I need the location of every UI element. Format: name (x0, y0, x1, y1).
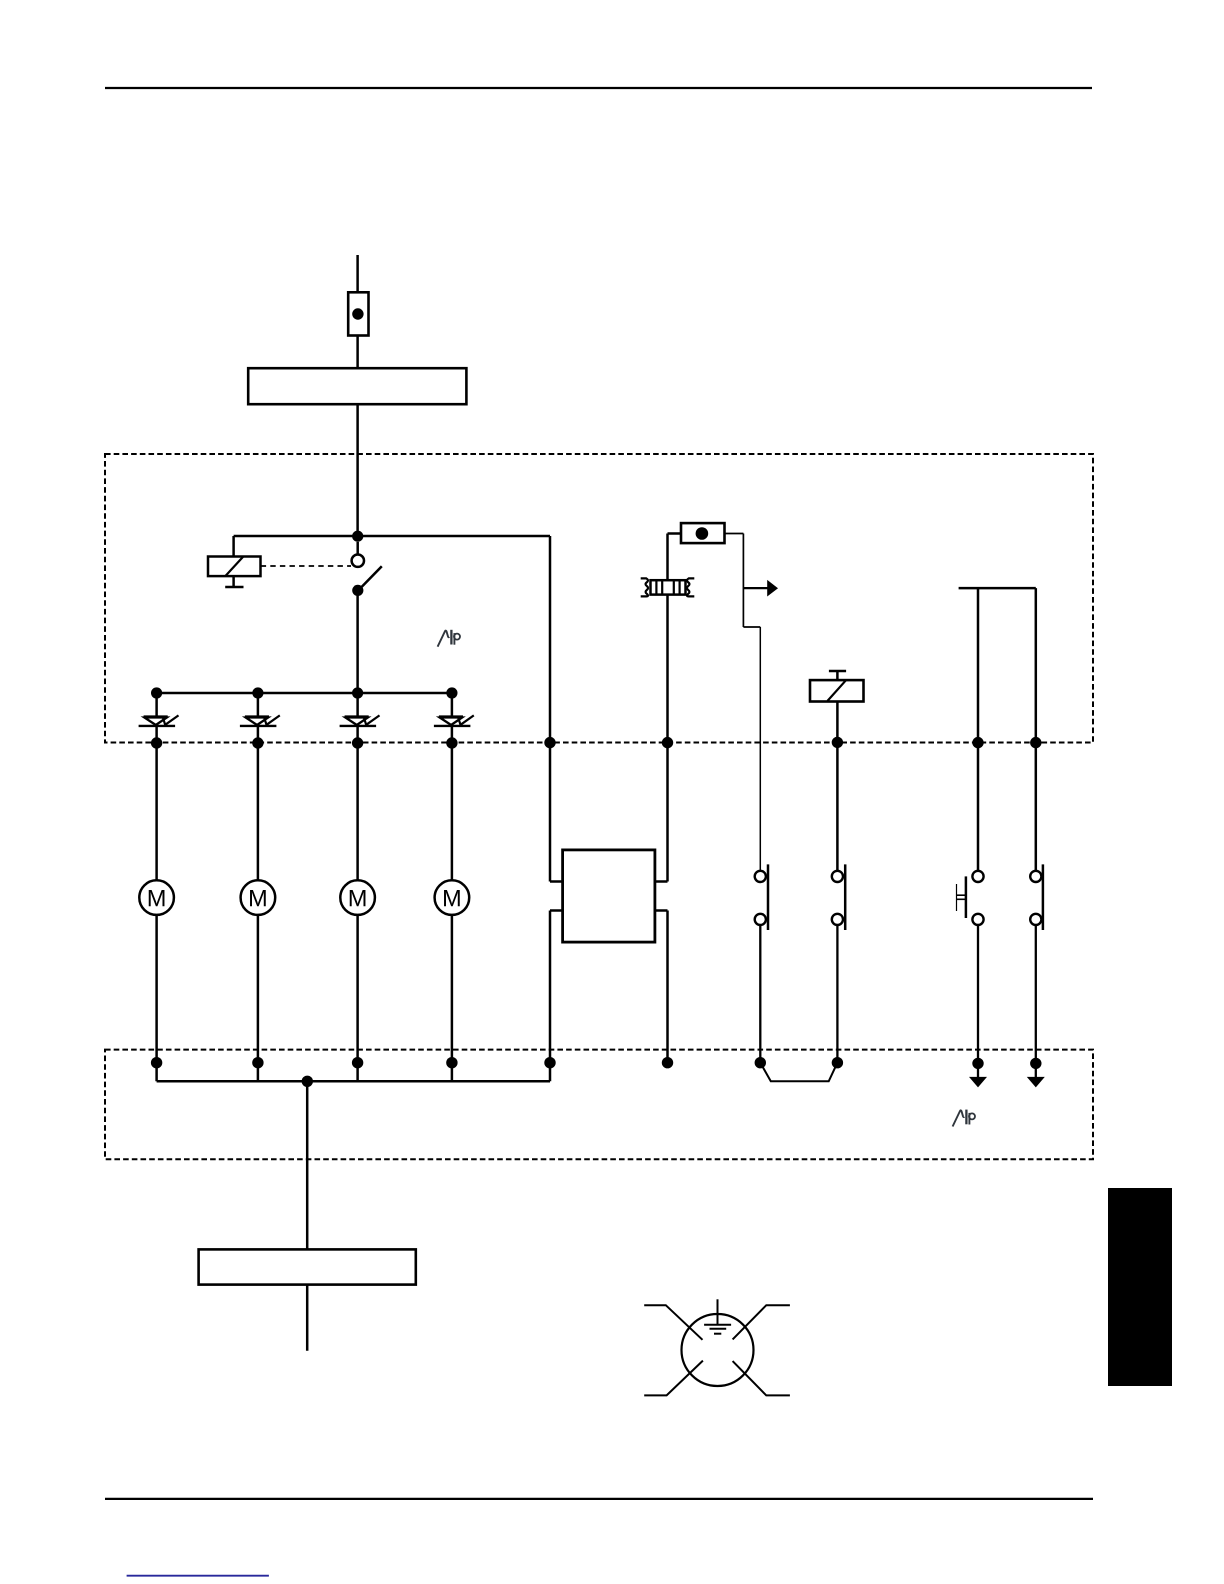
pushbutton SW1 (NO contacts) (755, 864, 768, 1062)
motor M2 (241, 880, 276, 1081)
relay coil K2 with tail (829, 670, 846, 673)
relay contact blade (360, 566, 382, 589)
key switch SW3 (contacts with interlock mark) (957, 871, 984, 1064)
terminal dot node C4 (446, 737, 457, 748)
Np pulse mark (lower enclosure) (953, 1110, 975, 1127)
right pair top connector (959, 587, 1036, 590)
control board dashed enclosure (upper) (105, 454, 1093, 743)
triac Q3 (340, 693, 380, 880)
triac Q2 (240, 693, 280, 880)
black sidebar tab (1108, 1188, 1172, 1386)
terminal dot node C8 (972, 737, 983, 748)
junction dot node B3 (352, 687, 363, 698)
wire: right feed column x=667.5 (666, 534, 669, 882)
footer rule (105, 1498, 1093, 1500)
lower dashed enclosure (105, 1050, 1093, 1160)
terminal dot node C9 (1030, 737, 1041, 748)
terminal dot node C3 (352, 737, 363, 748)
pushbutton SW4 (NO contacts) (1030, 864, 1043, 1063)
terminal dot node D8 (832, 1057, 843, 1068)
footer link underline (blue) (127, 1575, 269, 1577)
signal arrow head (767, 580, 778, 597)
return bus junction dot (302, 1076, 313, 1087)
wire: node A horizontal feed (234, 535, 550, 538)
U link between SW1 and SW2 returns (760, 1063, 837, 1082)
Np pulse mark (upper, inside control board) (438, 630, 460, 647)
ground arrow under SW3 (977, 1063, 979, 1078)
wire: coil K2 down to pushbutton SW2 (836, 702, 839, 871)
node A junction dot (352, 531, 363, 542)
neutral return bus (157, 1080, 550, 1083)
PCB stub bottom-left (550, 909, 563, 912)
motor M3 (340, 880, 375, 1081)
wire: terminal block tail (306, 1285, 309, 1351)
terminal dot node C7 (832, 737, 843, 748)
terminal dot node C6 (662, 737, 673, 748)
terminal dot node D9 (972, 1058, 983, 1069)
terminal dot node D5 (544, 1057, 555, 1068)
terminal dot node D10 (1030, 1058, 1041, 1069)
terminal dot node D6 (662, 1057, 673, 1068)
relay K1 actuator tail (232, 576, 235, 587)
dashed mechanical link K1 to contact (261, 565, 351, 567)
terminal dot node D1 (151, 1057, 162, 1068)
header rule (105, 87, 1092, 89)
motor M4 (435, 880, 470, 1081)
right winding curl (687, 578, 694, 596)
terminal dot node D2 (252, 1057, 263, 1068)
fuse F1 (vertical cartridge with dot) (348, 292, 368, 335)
pushbutton SW2 (NO contacts) (832, 864, 845, 1062)
PCB stub bottom-right (655, 909, 668, 912)
junction dot node B1 (151, 687, 162, 698)
triac Q1 (139, 693, 179, 880)
mains filter box (248, 368, 466, 404)
terminal dot node D3 (352, 1057, 363, 1068)
wire: return bus down to terminal block (306, 1081, 309, 1249)
terminal block box (199, 1249, 416, 1284)
terminal dot node D7 (755, 1057, 766, 1068)
wire: fuse F1 to filter box (356, 336, 359, 369)
compressor symbol: circle with earth and cross arms (644, 1299, 790, 1395)
relay contact S1: upper terminal (open circle) (356, 542, 359, 555)
wire: drop to relay coil K1 (232, 536, 235, 557)
left winding curl (641, 578, 648, 596)
main PCB box (563, 850, 655, 942)
PCB stub top-left (550, 880, 563, 883)
junction dot node B2 (252, 687, 263, 698)
wire: down to switch SW4 (1035, 588, 1038, 871)
triac feed bus (157, 692, 452, 695)
relay contact lower terminal dot (352, 585, 363, 596)
terminal dot node D4 (446, 1057, 457, 1068)
fuse F2 (horizontal cartridge with dot) (668, 532, 682, 535)
relay coil K1 (208, 557, 261, 577)
line transformer T1 (core with windings) (641, 578, 695, 596)
junction dot node B4 (446, 687, 457, 698)
arm bottom-right (733, 1361, 790, 1395)
wire: down to switch SW3 (977, 588, 980, 871)
motor M1 (139, 880, 174, 1081)
branch wire to signal arrow (742, 534, 744, 628)
PCB stub top-right (655, 880, 668, 883)
triac Q4 (434, 693, 474, 880)
wire: incoming supply drop (356, 255, 359, 293)
wire: contact down to triac bus (356, 590, 359, 693)
terminal dot node C1 (151, 737, 162, 748)
step jog in branch wire (743, 626, 760, 628)
arm top-right (733, 1305, 790, 1339)
earth ground inside (717, 1299, 719, 1325)
terminal dot node C2 (252, 737, 263, 748)
arm bottom-left (644, 1361, 703, 1396)
terminal dot node C5 (544, 737, 555, 748)
wire: filter box down to node A (356, 404, 359, 536)
wire: node A feed down left side of PCB (549, 536, 552, 882)
arm top-left (644, 1305, 702, 1340)
ground arrow under SW4 (1035, 1063, 1037, 1078)
